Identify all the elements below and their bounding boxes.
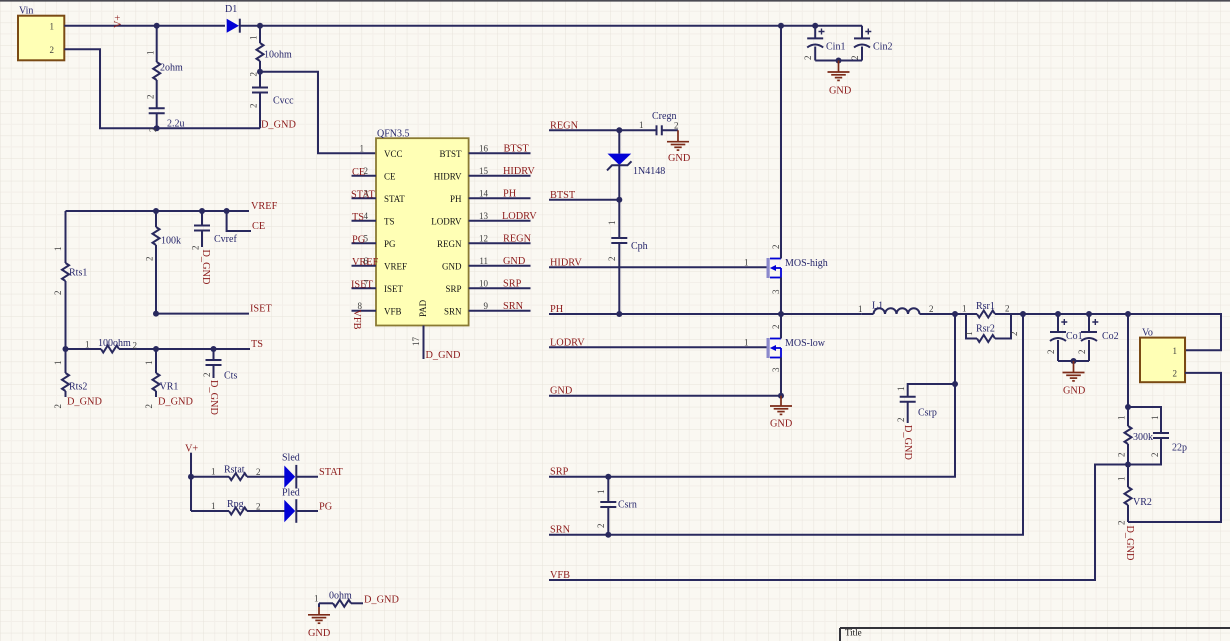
- resistor Rts1: [53, 247, 87, 296]
- wire 2ohm branch: [156, 26, 158, 129]
- svg-text:D_GND: D_GND: [426, 350, 461, 361]
- net label D_GND at VR1: [158, 397, 193, 408]
- svg-text:2: 2: [146, 95, 156, 100]
- svg-text:D_GND: D_GND: [200, 250, 211, 285]
- resistor Rsr2: [964, 314, 1019, 342]
- svg-text:11: 11: [479, 256, 488, 266]
- title block: [840, 628, 1230, 641]
- svg-text:1: 1: [964, 332, 974, 337]
- diode Pled: [282, 488, 318, 523]
- resistor 2ohm: [146, 51, 184, 100]
- capacitor Cvcc: [249, 88, 295, 109]
- net label D_GND at Csrp: [902, 425, 913, 460]
- svg-text:ISET: ISET: [351, 280, 373, 291]
- node TS junction left: [63, 346, 69, 352]
- net label CE: [252, 221, 265, 232]
- svg-text:VR2: VR2: [1133, 497, 1152, 508]
- svg-text:Rpg: Rpg: [227, 499, 244, 510]
- svg-text:2: 2: [1046, 350, 1056, 355]
- node TS at Cts: [211, 346, 217, 352]
- svg-text:2: 2: [1173, 368, 1178, 378]
- svg-text:Rstat: Rstat: [224, 465, 245, 476]
- svg-text:2: 2: [256, 467, 261, 477]
- svg-text:HIDRV: HIDRV: [550, 257, 582, 268]
- wire Co bottoms: [1058, 360, 1089, 362]
- svg-text:100k: 100k: [161, 236, 181, 247]
- node LED branch junction: [188, 474, 194, 480]
- svg-text:QFN3.5: QFN3.5: [377, 129, 410, 140]
- resistor 300k: [1117, 416, 1154, 465]
- svg-text:1: 1: [53, 361, 63, 366]
- svg-text:1: 1: [639, 120, 644, 130]
- svg-text:VR1: VR1: [160, 382, 179, 393]
- wire TS rail: [66, 348, 251, 350]
- svg-text:100ohm: 100ohm: [98, 338, 131, 349]
- svg-text:GND: GND: [308, 628, 331, 639]
- svg-text:D_GND: D_GND: [67, 397, 102, 408]
- node PH at MOS: [778, 311, 784, 317]
- svg-text:Cvref: Cvref: [214, 234, 237, 245]
- svg-text:3: 3: [771, 367, 781, 372]
- svg-text:1: 1: [249, 36, 259, 41]
- svg-text:VFB: VFB: [384, 306, 402, 316]
- svg-text:PH: PH: [550, 304, 564, 315]
- svg-text:2: 2: [896, 418, 906, 423]
- connector Vin: [18, 6, 64, 61]
- svg-text:15: 15: [479, 166, 489, 176]
- node SRP at Csrn: [605, 474, 611, 480]
- net label LODRV: [550, 337, 585, 348]
- svg-text:2: 2: [674, 121, 679, 131]
- net label HIDRV: [550, 257, 582, 268]
- svg-text:SRP: SRP: [503, 278, 522, 289]
- svg-text:ISET: ISET: [250, 304, 272, 315]
- wire pin14 PH: [469, 188, 531, 199]
- wire Vo pin2 to D_GND: [1128, 373, 1221, 522]
- svg-text:1: 1: [360, 143, 365, 153]
- node REGN junction: [616, 127, 622, 133]
- svg-text:2ohm: 2ohm: [160, 63, 183, 74]
- svg-text:2: 2: [249, 72, 259, 77]
- diode Sled: [282, 453, 318, 489]
- svg-text:Cph: Cph: [631, 241, 648, 252]
- svg-text:2.2u: 2.2u: [167, 119, 185, 130]
- wire pin16 BTST: [469, 143, 531, 154]
- wire REGN: [549, 129, 657, 131]
- svg-text:Rts2: Rts2: [69, 382, 87, 393]
- svg-text:2: 2: [53, 291, 63, 296]
- ground GND at Cregn: [667, 142, 691, 164]
- resistor Rstat: [191, 465, 285, 481]
- svg-text:VREF: VREF: [251, 201, 278, 212]
- svg-text:1: 1: [607, 221, 617, 226]
- svg-text:GND: GND: [770, 419, 793, 430]
- svg-text:D1: D1: [225, 4, 237, 15]
- net label STAT: [319, 467, 343, 478]
- svg-text:LODRV: LODRV: [502, 211, 537, 222]
- svg-text:VFB: VFB: [351, 310, 362, 330]
- svg-text:1: 1: [146, 51, 156, 56]
- pin 1 number: [360, 143, 365, 153]
- net label D_GND at Rts2: [67, 397, 102, 408]
- svg-text:1: 1: [858, 304, 863, 314]
- wire VCC to IC pin1: [260, 72, 376, 154]
- svg-text:MOS-low: MOS-low: [785, 338, 826, 349]
- capacitor Cin2: [850, 26, 892, 61]
- resistor Rts2: [53, 361, 87, 409]
- node GND junction: [778, 393, 784, 399]
- wire V+ rail: [64, 25, 862, 27]
- svg-text:2: 2: [144, 404, 154, 409]
- wire pin12 REGN: [469, 233, 532, 244]
- svg-text:2: 2: [249, 104, 259, 109]
- svg-text:GND: GND: [829, 86, 852, 97]
- node V+ junction at MOS-high drain: [778, 23, 784, 29]
- capacitor Cregn: [639, 111, 679, 142]
- svg-text:GND: GND: [668, 153, 691, 164]
- svg-text:1: 1: [144, 361, 154, 366]
- wire VREF rail: [66, 210, 250, 212]
- svg-text:2: 2: [596, 524, 606, 529]
- node Csrp junction: [952, 381, 958, 387]
- svg-text:Cts: Cts: [224, 371, 237, 382]
- svg-text:1: 1: [962, 304, 967, 314]
- svg-text:VREF: VREF: [384, 261, 407, 271]
- resistor VR1: [144, 349, 178, 409]
- svg-text:GND: GND: [1063, 386, 1086, 397]
- wire pin8 VFB stub: [351, 301, 376, 330]
- ground GND at Cin: [828, 61, 852, 97]
- node SRN at Csrn: [605, 532, 611, 538]
- svg-text:1: 1: [1150, 416, 1160, 421]
- net label REGN: [550, 120, 579, 131]
- svg-text:2: 2: [364, 166, 369, 176]
- svg-text:BTST: BTST: [550, 190, 576, 201]
- svg-text:2: 2: [803, 56, 813, 61]
- svg-text:CE: CE: [384, 171, 396, 181]
- diode zener 1N4148: [607, 130, 665, 199]
- wire pin10 SRP: [469, 278, 531, 289]
- svg-text:Co2: Co2: [1102, 331, 1119, 342]
- net label D_GND at Cts: [208, 380, 219, 415]
- svg-text:Rsr2: Rsr2: [976, 324, 995, 335]
- node V+ junction at D1 cathode: [257, 23, 263, 29]
- svg-text:22p: 22p: [1172, 443, 1187, 454]
- capacitor Cts: [202, 349, 237, 382]
- svg-text:Cvcc: Cvcc: [273, 96, 294, 107]
- node VREF at Cvref: [199, 208, 205, 214]
- capacitor Cin1: [803, 26, 845, 61]
- capacitor Csrp: [896, 384, 955, 423]
- svg-text:14: 14: [479, 188, 489, 198]
- wire pin17 PAD: [411, 326, 424, 360]
- capacitor Cvref: [191, 211, 238, 250]
- svg-text:2: 2: [1005, 304, 1010, 314]
- svg-text:TS: TS: [352, 212, 364, 223]
- svg-text:9: 9: [484, 301, 489, 311]
- wire pin3 STAT stub: [351, 188, 376, 200]
- net label V+: [113, 15, 124, 28]
- ground GND at 0ohm: [308, 603, 331, 639]
- svg-text:PG: PG: [384, 239, 396, 249]
- svg-text:Csrn: Csrn: [618, 500, 637, 511]
- svg-text:VCC: VCC: [384, 149, 403, 159]
- svg-text:GND: GND: [550, 386, 573, 397]
- svg-text:1: 1: [596, 490, 606, 495]
- node at Co1: [1055, 311, 1061, 317]
- resistor 100k: [145, 211, 182, 314]
- svg-text:0ohm: 0ohm: [329, 591, 352, 602]
- svg-text:MOS-high: MOS-high: [785, 258, 828, 269]
- svg-text:D_GND: D_GND: [902, 425, 913, 460]
- wire pin5 PG stub: [352, 233, 377, 245]
- net label PG: [319, 502, 333, 513]
- node PH at Cph: [616, 311, 622, 317]
- wire VREF rail to Rts1: [65, 211, 67, 263]
- node V+ junction at Cin1: [812, 23, 818, 29]
- net label SRP: [550, 467, 569, 478]
- svg-text:Co1: Co1: [1066, 331, 1083, 342]
- diode D1: [225, 4, 240, 33]
- svg-text:2: 2: [53, 404, 63, 409]
- wire output rail: [1023, 314, 1221, 350]
- transistor Q2 MOS-low: [744, 314, 826, 396]
- svg-text:2: 2: [148, 128, 158, 133]
- wire VFB riser: [549, 465, 1128, 581]
- svg-text:TS: TS: [251, 339, 263, 350]
- svg-text:13: 13: [479, 211, 489, 221]
- svg-text:STAT: STAT: [319, 467, 343, 478]
- svg-text:Cregn: Cregn: [652, 111, 676, 122]
- wire PH rail: [549, 313, 862, 315]
- svg-text:1: 1: [744, 257, 749, 267]
- svg-text:300k: 300k: [1133, 432, 1153, 443]
- node divider mid junction: [1125, 462, 1131, 468]
- node at Co2: [1086, 311, 1092, 317]
- op-amp controller IC U1 QFN3.5: [376, 129, 469, 326]
- svg-text:GND: GND: [442, 261, 462, 271]
- svg-text:10ohm: 10ohm: [264, 50, 292, 61]
- svg-text:D_GND: D_GND: [208, 380, 219, 415]
- svg-text:1: 1: [211, 501, 216, 511]
- wire GND net: [549, 395, 781, 397]
- svg-text:2: 2: [133, 341, 138, 351]
- wire Vin pin2: [64, 49, 260, 128]
- wire 10ohm branch: [259, 26, 261, 129]
- net label TS: [251, 339, 263, 350]
- capacitor Csrn: [596, 477, 637, 535]
- node VCC junction: [257, 69, 263, 75]
- wire pin13 LODRV: [469, 211, 538, 222]
- svg-text:1: 1: [53, 247, 63, 252]
- svg-text:D_GND: D_GND: [1124, 526, 1135, 561]
- svg-text:2: 2: [1077, 350, 1087, 355]
- svg-text:REGN: REGN: [550, 120, 579, 131]
- inductor L1: [858, 301, 955, 315]
- capacitor Cph: [607, 200, 648, 314]
- svg-text:Csrp: Csrp: [918, 408, 937, 419]
- ground GND at Co: [1063, 361, 1086, 397]
- svg-text:16: 16: [479, 143, 489, 153]
- svg-text:1: 1: [896, 387, 906, 392]
- svg-text:2: 2: [256, 502, 261, 512]
- wire pin2 CE stub: [352, 166, 377, 178]
- wire pin4 TS stub: [352, 211, 377, 223]
- svg-text:17: 17: [411, 337, 421, 347]
- svg-text:2: 2: [145, 257, 155, 262]
- wire divider riser: [1127, 314, 1129, 426]
- svg-text:V+: V+: [113, 15, 124, 28]
- svg-text:SRN: SRN: [444, 306, 462, 316]
- svg-text:3: 3: [771, 289, 781, 294]
- svg-text:1: 1: [744, 337, 749, 347]
- svg-text:HIDRV: HIDRV: [503, 166, 535, 177]
- sheet border top: [0, 0, 1230, 2]
- svg-text:2: 2: [191, 246, 201, 251]
- net label ISET: [250, 304, 272, 315]
- wire BTST: [549, 199, 619, 201]
- node bottom junction 2.2u: [154, 125, 160, 131]
- svg-text:LODRV: LODRV: [550, 337, 585, 348]
- svg-text:Pled: Pled: [282, 488, 300, 499]
- svg-text:12: 12: [479, 233, 488, 243]
- wire CE branch: [227, 211, 251, 231]
- capacitor 2.2u: [148, 108, 185, 132]
- svg-text:SRN: SRN: [550, 525, 571, 536]
- svg-text:STAT: STAT: [384, 194, 405, 204]
- svg-text:2: 2: [850, 56, 860, 61]
- svg-text:SRP: SRP: [445, 284, 461, 294]
- svg-text:8: 8: [358, 301, 363, 311]
- svg-text:Cin2: Cin2: [873, 42, 892, 53]
- svg-text:1: 1: [1173, 346, 1178, 356]
- wire Rts1 to TS: [65, 281, 67, 373]
- node PH output junction: [952, 311, 958, 317]
- net label D_GND at Cvref: [200, 250, 211, 285]
- svg-text:Sled: Sled: [282, 453, 300, 464]
- wire LODRV: [549, 346, 767, 348]
- svg-text:2: 2: [1117, 453, 1127, 458]
- net label VREF: [251, 201, 278, 212]
- svg-text:L1: L1: [872, 301, 883, 312]
- svg-text:D_GND: D_GND: [158, 397, 193, 408]
- resistor VR2: [1117, 465, 1152, 526]
- wire pin9 SRN: [469, 301, 531, 312]
- svg-text:2: 2: [50, 45, 55, 55]
- node V+ junction at 2ohm: [154, 23, 160, 29]
- svg-text:3: 3: [364, 188, 369, 198]
- svg-text:REGN: REGN: [437, 239, 462, 249]
- capacitor 22p: [1128, 407, 1187, 465]
- node BTST junction: [616, 197, 622, 203]
- svg-text:1: 1: [1117, 477, 1127, 482]
- svg-text:D_GND: D_GND: [261, 120, 296, 131]
- svg-text:HIDRV: HIDRV: [434, 171, 462, 181]
- svg-text:4: 4: [364, 211, 369, 221]
- svg-text:TS: TS: [384, 216, 395, 226]
- wire pin15 HIDRV: [469, 166, 536, 177]
- wire pin11 GND: [469, 256, 531, 267]
- svg-text:1: 1: [314, 594, 319, 604]
- svg-text:5: 5: [364, 233, 369, 243]
- resistor Rsr1: [955, 301, 1023, 318]
- transistor Q1 MOS-high: [744, 26, 828, 314]
- svg-text:GND: GND: [503, 256, 526, 267]
- svg-text:REGN: REGN: [503, 233, 532, 244]
- svg-text:LODRV: LODRV: [431, 216, 462, 226]
- svg-text:VFB: VFB: [550, 570, 570, 581]
- svg-text:2: 2: [1117, 521, 1127, 526]
- net label SRN: [550, 525, 571, 536]
- svg-text:Cin1: Cin1: [826, 42, 845, 53]
- capacitor Co1: [1046, 314, 1083, 361]
- svg-text:PAD: PAD: [418, 299, 428, 317]
- resistor 10ohm: [249, 36, 293, 77]
- svg-text:Rts1: Rts1: [69, 268, 87, 279]
- net label PH: [550, 304, 564, 315]
- svg-text:BTST: BTST: [439, 149, 462, 159]
- svg-text:PG: PG: [319, 502, 333, 513]
- svg-text:7: 7: [364, 278, 369, 288]
- wire SRN: [549, 314, 1023, 535]
- svg-text:Rsr1: Rsr1: [976, 301, 995, 312]
- node Cin gnd junction: [836, 58, 842, 64]
- svg-text:PH: PH: [450, 194, 462, 204]
- node TS at VR1: [153, 346, 159, 352]
- svg-text:6: 6: [364, 256, 369, 266]
- net label D_GND at Cvcc: [261, 120, 296, 131]
- capacitor Co2: [1077, 314, 1119, 361]
- ground GND at MOS-low: [770, 396, 793, 430]
- svg-text:1: 1: [211, 467, 216, 477]
- svg-text:2: 2: [202, 373, 212, 378]
- svg-text:2: 2: [1009, 332, 1019, 337]
- resistor 0ohm: [314, 591, 363, 607]
- svg-text:10: 10: [479, 278, 489, 288]
- wire pin6 VREF stub: [352, 256, 379, 268]
- net label D_GND at 0ohm: [364, 595, 399, 606]
- svg-text:2: 2: [607, 257, 617, 262]
- node sense right junction: [1020, 311, 1026, 317]
- net label V+ at LED branch: [185, 444, 198, 455]
- svg-text:1: 1: [85, 340, 90, 350]
- net label D_GND at VR2: [1124, 526, 1135, 561]
- net label D_GND at PAD: [426, 350, 461, 361]
- wire Cin bottoms: [815, 60, 862, 62]
- wire V+ LED riser: [190, 453, 192, 511]
- node at divider: [1125, 311, 1131, 317]
- svg-text:2: 2: [771, 245, 781, 250]
- wire pin7 ISET stub: [351, 278, 376, 290]
- svg-text:2: 2: [771, 325, 781, 330]
- node VREF at CE riser: [224, 208, 230, 214]
- svg-text:SRP: SRP: [550, 467, 569, 478]
- resistor 100ohm: [85, 338, 137, 353]
- resistor Rpg: [191, 499, 285, 515]
- node VREF at 100k: [153, 208, 159, 214]
- svg-text:BTST: BTST: [504, 143, 530, 154]
- svg-text:Vin: Vin: [19, 6, 33, 17]
- svg-text:Title: Title: [845, 628, 862, 638]
- svg-text:Vo: Vo: [1142, 328, 1153, 339]
- svg-text:ISET: ISET: [384, 284, 404, 294]
- svg-text:SRN: SRN: [503, 301, 524, 312]
- node Co gnd junction: [1071, 358, 1077, 364]
- svg-text:D_GND: D_GND: [364, 595, 399, 606]
- node divider top junction: [1125, 404, 1131, 410]
- svg-text:1: 1: [1117, 416, 1127, 421]
- wire HIDRV: [549, 266, 767, 268]
